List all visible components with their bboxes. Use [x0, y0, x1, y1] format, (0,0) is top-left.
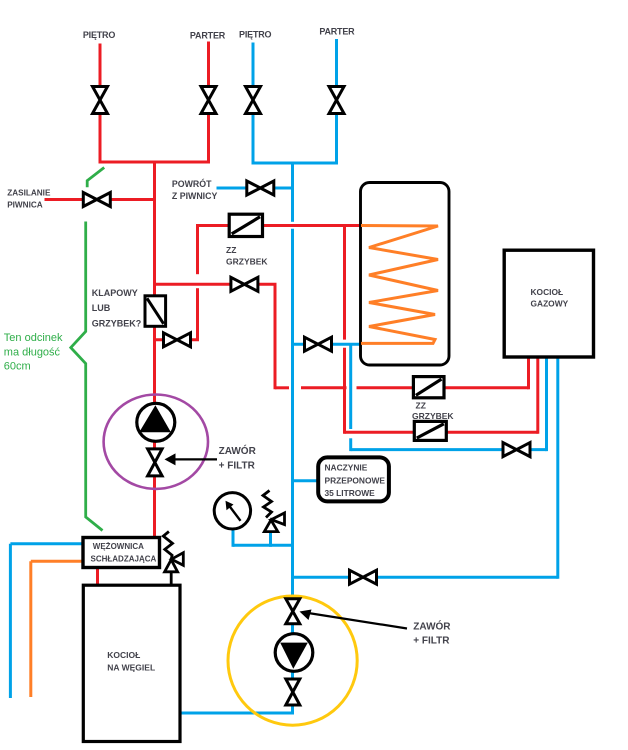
label ZAWOR FILTR 2: [413, 620, 451, 647]
wire blue tank inlet: [293, 343, 361, 346]
svg-text:KLAPOWY: KLAPOWY: [92, 288, 138, 298]
label ZZ GRZYBEK 1: [226, 245, 268, 267]
valve V7 mid run: [231, 277, 258, 291]
wire red valve branch: [155, 338, 200, 341]
svg-text:PIWNICA: PIWNICA: [7, 200, 43, 209]
label ZAWOR FILTR 1: [219, 444, 257, 472]
valve V1 riser PIETRO red: [93, 87, 108, 114]
valve V14 pump2 bottom: [286, 679, 300, 705]
wire blue riser PARTER: [335, 39, 338, 163]
check valve S2 ZZ GRZYBEK right upper: [413, 377, 444, 398]
svg-text:PRZEPONOWE: PRZEPONOWE: [325, 476, 386, 486]
arrow A1 zawor+filtr: [165, 453, 218, 465]
label ZASILANIE PIWNICA: [7, 189, 51, 210]
svg-text:POWRÓT: POWRÓT: [172, 178, 212, 189]
pump P2 body: [275, 634, 313, 672]
wire blue gas boiler return riser: [545, 357, 548, 451]
svg-text:GAZOWY: GAZOWY: [531, 298, 569, 308]
box WEZOWNICA SCHLADZAJACA: [83, 538, 160, 568]
wire orange wezownica feed: [31, 560, 83, 563]
wire blue coil outlet drop lower: [349, 438, 352, 451]
wire blue main vertical upper: [291, 163, 294, 222]
wire red gas boiler supply riser: [527, 357, 530, 389]
tank with coil (zasobnik): [361, 183, 450, 366]
valve V12 pump1 filter valve: [148, 449, 163, 476]
svg-text:NA WĘGIEL: NA WĘGIEL: [107, 663, 155, 673]
wire blue main vertical lower: [291, 229, 294, 713]
svg-text:ma długość: ma długość: [4, 346, 61, 358]
box NACZYNIE PRZEPONOWE: [318, 457, 389, 501]
pressure gauge: [214, 493, 250, 529]
wire red lower run seg2: [301, 386, 347, 389]
svg-text:Ten odcinek: Ten odcinek: [4, 332, 63, 344]
svg-text:ZZ: ZZ: [226, 245, 236, 255]
pump P2 circle yellow: [228, 596, 357, 725]
safety valve SV2: [163, 532, 183, 586]
svg-text:ZAWÓR: ZAWÓR: [413, 620, 451, 633]
check valve S3 ZZ GRZYBEK right lower: [414, 421, 446, 440]
wire blue safety valve drop: [269, 532, 272, 547]
PIPES-BLUE: [10, 39, 557, 713]
pump P1 body: [137, 403, 175, 441]
coil (wezownica in tank): [361, 226, 438, 344]
wire red vertical to lower run: [274, 284, 277, 389]
valve V3 riser PIETRO blue: [246, 87, 261, 114]
PIPES-ORANGE: [31, 561, 83, 697]
svg-text:ZASILANIE: ZASILANIE: [7, 189, 51, 198]
label green Ten odcinek: [4, 332, 63, 373]
wire red branch vertical upper: [196, 224, 199, 274]
wire blue riser PIETRO: [252, 43, 255, 164]
safety valve SV1: [263, 491, 285, 532]
svg-text:SCHŁADZAJĄCA: SCHŁADZAJĄCA: [91, 555, 157, 564]
green brace: [71, 168, 104, 531]
svg-text:GRZYBEK?: GRZYBEK?: [92, 319, 142, 329]
check valve klapowy on main vertical: [145, 296, 166, 327]
svg-text:PIĘTRO: PIĘTRO: [83, 30, 116, 40]
label ZZ GRZYBEK 2: [412, 400, 454, 421]
wire blue coal boiler outlet: [180, 712, 294, 715]
wire red top header: [99, 161, 211, 164]
svg-text:KOCIOŁ: KOCIOŁ: [531, 287, 564, 297]
wire red lower run seg1: [275, 386, 289, 389]
check valve S1 ZZ GRZYBEK top: [229, 214, 262, 236]
wire blue powrot z piwnicy: [217, 187, 293, 190]
svg-text:PARTER: PARTER: [319, 27, 355, 37]
wire blue gauge drop: [232, 530, 235, 547]
wire blue top header: [252, 162, 339, 165]
wire blue gauge header: [233, 544, 293, 547]
box KOCIOL NA WEGIEL: [83, 585, 180, 741]
PIPES-RED: [45, 42, 538, 586]
wire blue wezownica feed: [10, 542, 83, 545]
valve V8 branch: [164, 333, 191, 347]
svg-text:ZZ: ZZ: [416, 400, 426, 410]
wire blue coil outlet drop upper: [349, 344, 352, 429]
wire red riser PIETRO: [99, 44, 102, 163]
svg-text:+ FILTR: + FILTR: [219, 460, 256, 471]
wire red zasilanie piwnica: [45, 198, 155, 201]
valve V4 riser PARTER blue: [329, 87, 344, 114]
wire red gas boiler second riser: [536, 357, 539, 434]
valve V10 right blue run: [503, 443, 530, 457]
wire red main vertical: [153, 161, 156, 538]
wire red wezownica stub: [96, 567, 99, 585]
svg-text:Z PIWNICY: Z PIWNICY: [172, 191, 218, 201]
valve V2 riser PARTER red: [201, 87, 216, 114]
arrow A2 zawor+filtr 2: [300, 610, 408, 629]
svg-text:ZAWÓR: ZAWÓR: [219, 444, 257, 457]
valve V6 powrot z piwnicy: [247, 181, 274, 195]
svg-text:GRZYBEK: GRZYBEK: [412, 411, 454, 421]
boiler KOCIOL GAZOWY box: [504, 250, 593, 357]
svg-text:GRZYBEK: GRZYBEK: [226, 257, 268, 267]
wire red tank drop upper: [343, 226, 346, 340]
wire blue left drop: [9, 544, 12, 698]
wire red coil feed: [198, 224, 361, 227]
wire orange left drop: [29, 561, 32, 697]
wire blue naczynie stub: [293, 479, 319, 482]
label POWROT Z PIWNICY: [172, 178, 218, 201]
svg-text:LUB: LUB: [92, 303, 111, 313]
wire red branch vertical lower: [196, 288, 199, 340]
svg-text:KOCIOŁ: KOCIOŁ: [107, 650, 140, 660]
valve V11 lower blue run: [350, 570, 377, 584]
wire red tank drop lower: [343, 348, 346, 434]
svg-text:+ FILTR: + FILTR: [413, 636, 450, 647]
wire blue lower run: [293, 576, 558, 579]
wire blue right run: [351, 448, 547, 451]
valve V9 tank inlet: [305, 337, 332, 351]
svg-text:WĘŻOWNICA: WĘŻOWNICA: [93, 542, 144, 551]
svg-text:PIĘTRO: PIĘTRO: [239, 30, 272, 40]
wire red riser PARTER: [207, 42, 210, 163]
svg-text:NACZYNIE: NACZYNIE: [325, 463, 368, 473]
wire red lower run seg3: [357, 386, 529, 389]
wire red mid horizontal: [155, 283, 277, 286]
valve V5 zasilanie piwnica: [83, 193, 110, 207]
label KLAPOWY LUB GRZYBEK: [92, 288, 142, 329]
svg-text:35 LITROWE: 35 LITROWE: [325, 488, 376, 498]
valve V13 pump2 top: [286, 599, 300, 624]
svg-text:60cm: 60cm: [4, 361, 31, 373]
pump P1 circle purple: [104, 395, 208, 489]
svg-text:PARTER: PARTER: [190, 31, 226, 41]
wire blue gas boiler second riser: [556, 357, 559, 579]
wire red lower horizontal: [345, 431, 538, 434]
